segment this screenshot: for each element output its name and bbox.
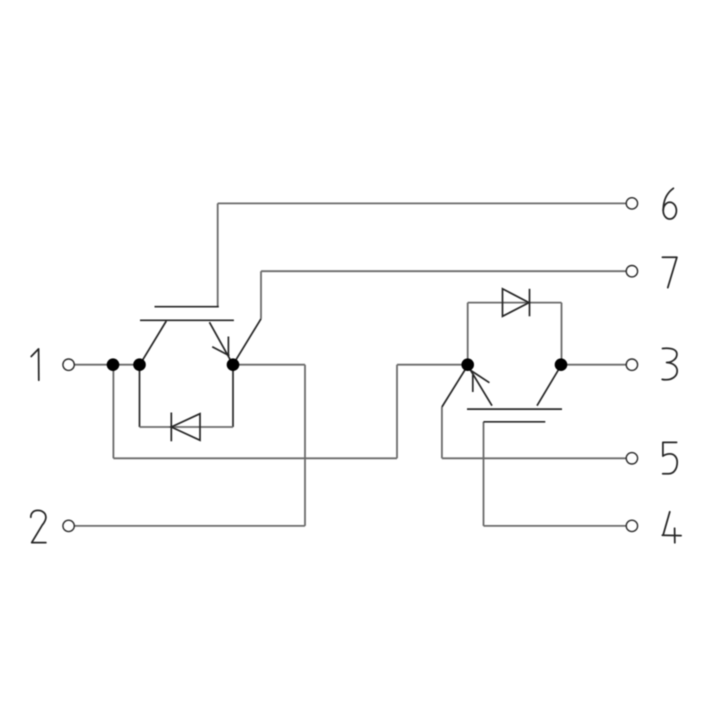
wire terminal5 horizontal [442,457,626,459]
IGBT Q2 main bar [467,408,562,410]
wire lower rail left [113,457,397,459]
wire node C to corner x305 [233,364,305,366]
diode D2 cathode bar [529,289,531,317]
wire node B down to diode D1 [139,365,141,427]
pin label 3 [662,348,677,380]
terminal circle 7 [626,266,637,277]
pin label 2 [31,510,46,542]
wire terminal4 horizontal [484,525,627,527]
pin label 6 [663,188,676,219]
terminal circle 1 [63,359,74,370]
IGBT Q1 collector diagonal [140,321,167,365]
node D junction dot [461,358,474,371]
wire terminal1 to node A [74,364,113,366]
node E junction dot [555,358,568,371]
IGBT Q2 emitter arrow barb diagonal [470,370,489,383]
IGBT Q1 emitter diagonal [209,322,233,365]
IGBT Q2 emitter diagonal [468,366,492,406]
IGBT Q1 main bar [140,319,234,321]
wire diode D2 horizontal [468,302,562,304]
IGBT Q2 emitter arrow barb vertical [472,375,474,392]
wire Q1 gate lead down [217,203,219,306]
diode D1 triangle [171,414,200,441]
wire Q2 gate lead down [483,422,485,526]
wire node A to node B [113,364,140,366]
wire riser x397 [396,365,398,459]
pin label 7 [662,257,677,287]
wire node E to terminal3 [561,364,626,366]
wire terminal7 horizontal [261,270,626,272]
IGBT Q1 gate bar [155,306,219,308]
terminal circle 3 [626,359,637,370]
node A junction dot [107,358,120,371]
terminal circle 5 [626,453,637,464]
wire diode D1 horizontal [140,426,234,428]
IGBT Q2 gate bar [484,421,546,423]
wire node C down to diode D1 [232,365,234,427]
node B junction dot [133,358,146,371]
terminal circle 4 [626,520,637,531]
wire diode D2 down to node E [561,303,563,365]
wire Q2 emitter vertical [441,407,443,458]
IGBT Q2 collector diagonal [537,366,561,406]
wire node A down [112,365,114,459]
wire terminal6 horizontal [218,202,626,204]
pin label 4 [662,512,681,543]
node C junction dot [227,358,240,371]
diode D2 triangle [503,289,530,317]
wire node D up to diode D2 [467,303,469,365]
IGBT Q1 emitter arrow barb vertical [227,337,229,356]
wire terminal7 diagonal to node C [233,319,261,365]
IGBT Q1 emitter arrow barb diagonal [212,347,229,356]
wire to node D [397,364,468,366]
diode D1 cathode bar [170,413,172,442]
terminal circle 6 [626,198,637,209]
pin label 1 [31,349,39,380]
wire vertical x305 down to terminal2 level [304,365,306,526]
wire terminal7 vertical drop [260,271,262,319]
wire terminal2 horizontal [74,525,305,527]
pin label 5 [663,442,678,473]
terminal circle 2 [63,520,74,531]
wire Q2 emitter diagonal [442,366,468,408]
